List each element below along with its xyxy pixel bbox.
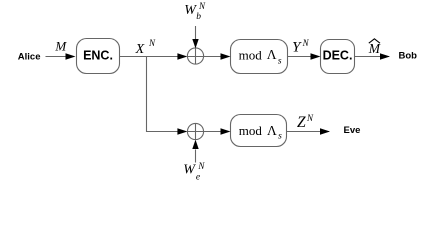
svg-text:Alice: Alice xyxy=(18,52,41,63)
svg-text:M: M xyxy=(368,41,381,56)
svg-text:W: W xyxy=(183,163,196,178)
svg-text:ENC.: ENC. xyxy=(83,49,113,63)
svg-text:Λ: Λ xyxy=(267,47,277,62)
svg-text:N: N xyxy=(197,161,205,171)
svg-text:DEC.: DEC. xyxy=(323,49,353,63)
svg-text:N: N xyxy=(148,38,156,48)
svg-text:N: N xyxy=(198,1,206,11)
svg-text:X: X xyxy=(135,42,145,57)
svg-text:N: N xyxy=(302,38,310,48)
svg-text:mod: mod xyxy=(239,123,263,138)
svg-text:M: M xyxy=(54,38,67,53)
svg-text:s: s xyxy=(278,132,282,142)
svg-text:b: b xyxy=(196,12,201,22)
svg-text:Eve: Eve xyxy=(344,125,361,136)
svg-text:s: s xyxy=(278,56,282,66)
svg-text:N: N xyxy=(306,113,314,123)
svg-text:Bob: Bob xyxy=(399,51,418,62)
svg-text:Λ: Λ xyxy=(267,123,277,138)
svg-text:e: e xyxy=(196,172,200,182)
svg-text:mod: mod xyxy=(239,47,263,62)
svg-text:Z: Z xyxy=(297,114,306,131)
svg-text:W: W xyxy=(184,3,197,18)
